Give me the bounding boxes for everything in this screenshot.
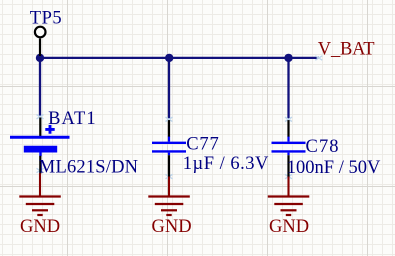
- off-grid node marker (C78): [285, 174, 292, 178]
- capacitor C77 pin 2 (bottom): [168, 155, 170, 177]
- off-grid node marker (C78 top pin): [285, 117, 292, 121]
- svg-text:GND: GND: [269, 217, 309, 237]
- capacitor C78 pin 2 (bottom): [287, 155, 289, 177]
- junction node at C78 column: [284, 54, 292, 62]
- junction node at C77 column: [165, 54, 173, 62]
- battery BAT1 pin 1 (top): [39, 118, 41, 137]
- off-grid node marker (battery): [37, 168, 44, 172]
- svg-text:TP5: TP5: [30, 9, 62, 29]
- svg-text:V_BAT: V_BAT: [318, 39, 375, 59]
- ground GND (battery column): [19, 173, 61, 215]
- wire battery column vertical segment: [39, 58, 41, 118]
- capacitor C78 pin 1 (top): [287, 120, 289, 137]
- off-grid node marker (C77): [166, 174, 173, 178]
- svg-text:C77: C77: [186, 135, 219, 155]
- off-grid node marker (wire end / net label): [315, 56, 322, 60]
- ground GND (C78 column): [268, 177, 310, 216]
- wire C78 column vertical segment: [287, 58, 289, 120]
- off-grid node marker (C77 top pin): [166, 117, 173, 121]
- capacitor C78 symbol: [272, 137, 306, 156]
- svg-text:ML621S/DN: ML621S/DN: [39, 158, 138, 178]
- wire net V_BAT horizontal segment: [39, 57, 319, 59]
- capacitor C77 symbol: [152, 137, 186, 156]
- battery BAT1 pin 2 (bottom): [39, 156, 41, 174]
- test point TP5: [35, 27, 46, 56]
- wire C77 column vertical segment: [168, 58, 170, 120]
- battery BAT1 symbol: [10, 125, 70, 156]
- off-grid node marker (battery top pin): [37, 115, 44, 119]
- svg-text:GND: GND: [20, 217, 60, 237]
- ground GND (C77 column): [148, 177, 190, 216]
- junction node at battery column: [36, 54, 44, 62]
- svg-text:1µF / 6.3V: 1µF / 6.3V: [183, 154, 269, 174]
- svg-text:GND: GND: [152, 217, 192, 237]
- svg-text:BAT1: BAT1: [48, 109, 97, 129]
- svg-text:C78: C78: [306, 137, 340, 157]
- capacitor C77 pin 1 (top): [168, 120, 170, 137]
- svg-text:100nF / 50V: 100nF / 50V: [287, 158, 381, 178]
